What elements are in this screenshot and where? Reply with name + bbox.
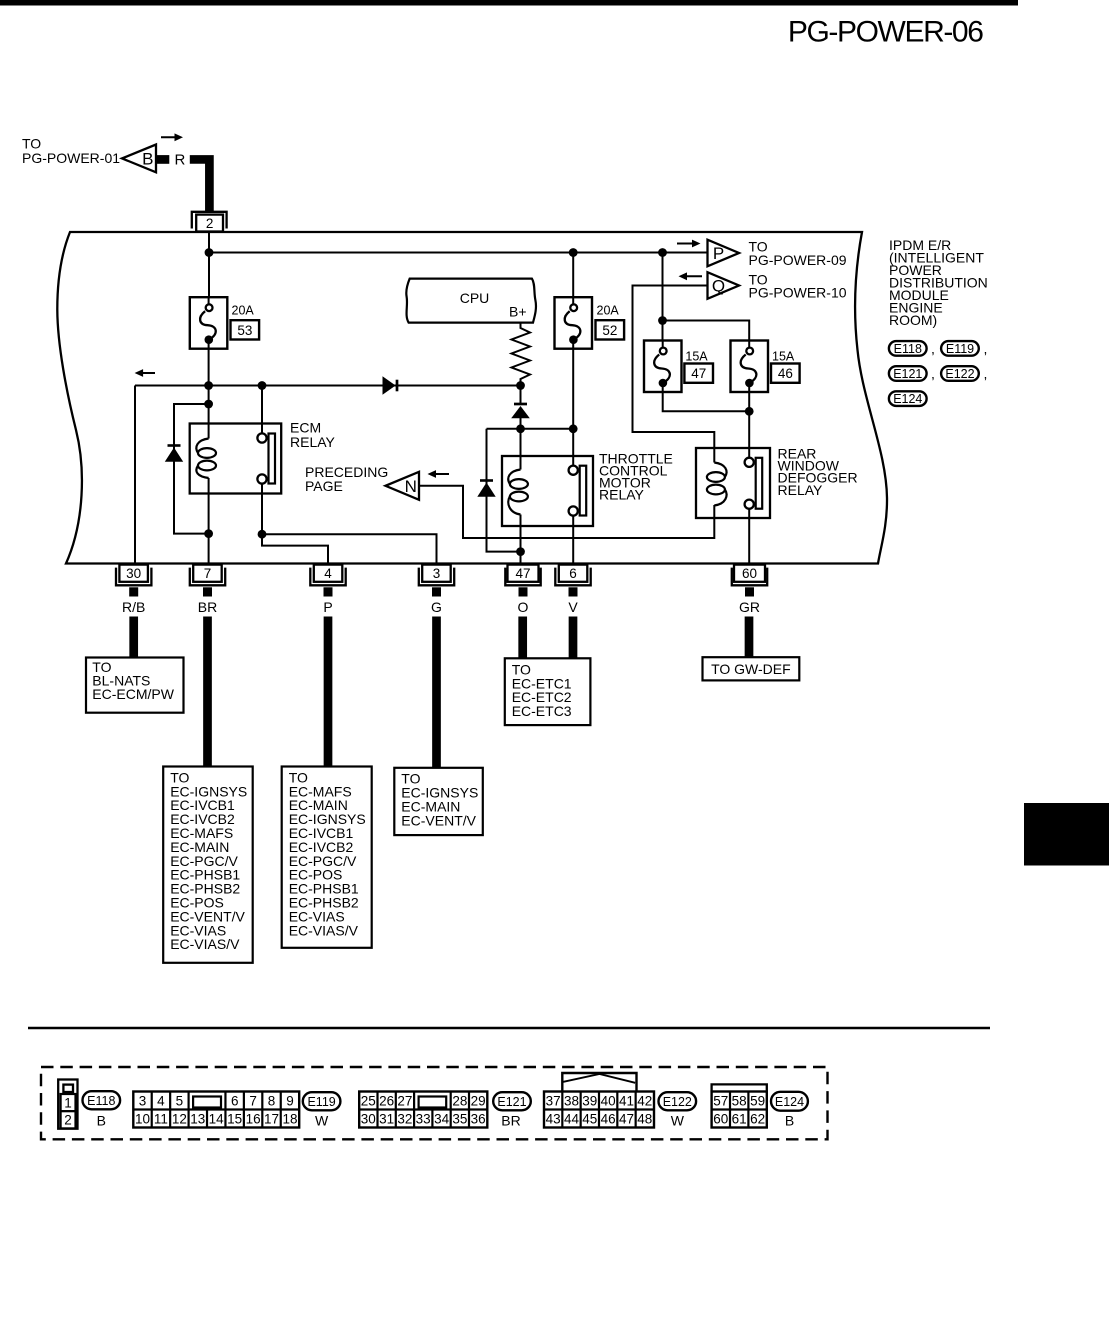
svg-text:16: 16 [246,1111,261,1126]
svg-text:6: 6 [569,566,577,581]
svg-text:39: 39 [582,1093,597,1108]
off-page connector triangle P [708,240,740,267]
svg-text:52: 52 [602,323,617,338]
svg-text:31: 31 [379,1111,394,1126]
svg-text:6: 6 [231,1093,239,1108]
thick wire G [432,617,441,769]
svg-text:E119: E119 [307,1095,335,1109]
wire ECM coil to connector 7 [208,478,210,534]
fuse number box 53 [231,320,260,339]
junction [204,381,213,390]
fuse number box 47 [684,364,713,383]
destination box list (G wire) [394,768,483,835]
arrow right (to PG-POWER-09) [677,240,701,248]
wire relay rail [487,428,574,430]
svg-text:EC-VIAS/V: EC-VIAS/V [170,936,240,952]
junction [204,529,213,538]
thick wire R/B [129,617,138,658]
rear window defogger relay box [696,448,770,518]
connector oval E119 [941,341,979,356]
svg-text:20A: 20A [232,303,255,317]
connector terminal 3 [419,565,454,597]
svg-text:E124: E124 [775,1095,804,1109]
wire throttle coil to connector 47 [520,515,522,552]
off-page connector triangle B [122,145,156,173]
diode D (series, pointing right) [383,376,398,394]
svg-text:2: 2 [64,1113,72,1128]
svg-text:27: 27 [397,1093,412,1108]
wire defogger contact to connector 60 [748,509,750,563]
svg-text:41: 41 [619,1093,634,1108]
wire to connector 3 [262,534,437,563]
svg-text:30: 30 [126,566,141,581]
fuse number box 46 [771,364,800,383]
svg-text:EC-VIAS/V: EC-VIAS/V [289,922,359,938]
svg-text:8: 8 [268,1093,276,1108]
arrow left (current direction) [135,369,155,377]
thick wire O [518,617,527,659]
svg-text:B+: B+ [509,304,527,320]
wire fuse 46 to defogger contact [748,392,750,458]
svg-text:9: 9 [286,1093,294,1108]
wire throttle contact to connector 6 [572,516,574,563]
svg-text:43: 43 [546,1111,561,1126]
svg-text:CPU: CPU [460,290,490,306]
dashed connector-views frame [41,1067,828,1139]
svg-text:G: G [431,599,442,615]
junction [569,248,578,257]
arrow right (from PG-POWER-01) [161,133,183,141]
svg-text:P: P [713,244,724,263]
svg-text:3: 3 [139,1093,147,1108]
svg-text:P: P [323,599,332,615]
CPU box (wavy sides) [406,279,536,323]
svg-text:Q: Q [712,277,725,296]
svg-text:14: 14 [209,1111,225,1126]
svg-text:47: 47 [691,366,706,381]
svg-text:13: 13 [190,1111,205,1126]
connector oval E122 (view) [659,1092,697,1110]
connector view E121 grid [359,1092,487,1128]
junction [204,400,213,409]
svg-text:47: 47 [515,566,530,581]
svg-text:25: 25 [361,1093,376,1108]
svg-text:N: N [405,477,417,496]
svg-text:RELAY: RELAY [778,482,824,498]
wire to connector 47 [520,552,522,563]
thick wire V [569,617,578,659]
junction [658,316,667,325]
svg-text:E118: E118 [894,342,922,356]
svg-text:7: 7 [249,1093,257,1108]
svg-text:10: 10 [135,1111,150,1126]
svg-text:45: 45 [582,1111,597,1126]
svg-text:28: 28 [452,1093,467,1108]
connector oval E121 [889,366,927,381]
svg-text:EC-ECM/PW: EC-ECM/PW [92,686,174,702]
thick wire BR [203,617,212,767]
wire main rail to connector 30 [135,385,521,387]
wire fuse 47 to node [663,392,750,411]
svg-text:12: 12 [172,1111,187,1126]
connector 2 (IPDM E/R terminal) [192,212,227,232]
svg-text:26: 26 [379,1093,394,1108]
svg-text:15A: 15A [772,350,795,364]
fuse 15A 46 [731,341,769,393]
svg-text:E122: E122 [945,367,974,381]
svg-text:61: 61 [732,1111,747,1126]
svg-text:E122: E122 [663,1095,692,1109]
IPDM E/R module outline (torn edges) [57,232,887,564]
svg-text:O: O [518,599,529,615]
svg-text:EC-VENT/V: EC-VENT/V [401,812,476,828]
connector terminal 30 [116,565,151,597]
svg-text:B: B [97,1112,106,1128]
thick wire GR [745,617,754,658]
svg-text:EC-ETC3: EC-ETC3 [512,703,572,719]
destination box TO EC-ETC1/2/3 [505,658,591,725]
connector terminal 7 [190,565,225,597]
svg-text:62: 62 [750,1111,765,1126]
svg-text:32: 32 [397,1111,412,1126]
svg-text:PG-POWER-06: PG-POWER-06 [788,16,983,49]
svg-text:36: 36 [471,1111,486,1126]
svg-text:RELAY: RELAY [599,487,645,503]
connector view E119 grid [133,1092,299,1128]
svg-text:PG-POWER-01: PG-POWER-01 [22,150,120,166]
svg-text:1: 1 [64,1096,72,1111]
fuse number box 52 [596,320,625,339]
svg-text:46: 46 [601,1111,616,1126]
wire N to rear defogger relay coil [419,486,714,538]
svg-text:59: 59 [750,1093,765,1108]
svg-text:PAGE: PAGE [305,478,343,494]
wire rail to throttle coil [520,429,522,470]
top header bar [0,0,1018,6]
wire bus to fuse 47 [662,253,664,341]
svg-text:4: 4 [157,1093,165,1108]
wire to throttle contact [572,429,574,466]
svg-text:53: 53 [237,323,252,338]
junction [516,381,525,390]
off-page connector triangle N [386,472,420,500]
wire to connector 4 [262,534,328,563]
diode (flyback, ECM relay) [165,446,183,462]
resistor (CPU B+ pull-up) [512,323,531,386]
wire diode branch around ECM coil [174,404,209,534]
wire to connector 7 [208,534,210,563]
separator rule [28,1027,990,1029]
wire ECM contact to branch node [261,484,263,535]
svg-text:E119: E119 [946,342,974,356]
E124 keying bar [712,1084,767,1091]
svg-text:3: 3 [433,566,441,581]
connector oval E124 [889,391,927,406]
connector oval E121 (view) [493,1092,531,1110]
svg-text:15A: 15A [685,350,708,364]
svg-text:E121: E121 [497,1095,526,1109]
fuse 20A 52 [555,297,593,349]
svg-text:29: 29 [471,1093,486,1108]
ECM relay box [190,424,282,494]
junction [516,424,525,433]
svg-text:4: 4 [324,566,332,581]
connector oval E122 [941,366,979,381]
throttle control motor relay box [502,456,593,526]
connector oval E118 [889,341,927,356]
junction [258,530,267,539]
svg-text:W: W [671,1112,685,1128]
junction [658,248,667,257]
junction [516,547,525,556]
svg-text:R/B: R/B [122,599,145,615]
connector oval E118 (view) [83,1091,121,1109]
svg-text:,: , [931,341,935,357]
svg-text:15: 15 [227,1111,242,1126]
rear defogger relay contact [745,458,763,509]
black section index tab [1024,803,1109,866]
svg-text:BR: BR [198,599,217,615]
svg-text:47: 47 [619,1111,634,1126]
svg-text:11: 11 [154,1111,168,1126]
svg-text:,: , [931,366,935,382]
svg-text:E118: E118 [87,1094,115,1108]
svg-text:40: 40 [601,1093,616,1108]
svg-text:PG-POWER-10: PG-POWER-10 [749,285,847,301]
svg-text:20A: 20A [597,303,620,317]
svg-text:48: 48 [637,1111,652,1126]
wire diode branch around throttle coil [487,429,521,552]
svg-text:57: 57 [713,1093,728,1108]
svg-text:60: 60 [742,566,757,581]
wire diode to relay rail [520,418,522,429]
svg-text:60: 60 [713,1111,728,1126]
wire down to connector 30 [134,386,136,563]
svg-text:GR: GR [739,599,760,615]
connector view E118 (2-pin) [58,1080,77,1129]
wire fuse 53 to ECM relay coil [208,349,210,424]
svg-text:B: B [142,150,153,169]
svg-text:PG-POWER-09: PG-POWER-09 [749,252,847,268]
svg-text:58: 58 [732,1093,747,1108]
svg-text:W: W [315,1112,329,1128]
destination box list (P wire) [282,767,372,948]
destination box TO BL-NATS EC-ECM/PW [86,658,184,713]
svg-text:34: 34 [434,1111,450,1126]
wire coil top inside relay [208,424,210,439]
connector oval E124 (view) [771,1092,808,1111]
connector view E122 grid [544,1092,654,1128]
svg-text:2: 2 [206,216,214,231]
wire resistor junction to diode [520,386,522,404]
wire to fuse 46 [663,321,750,341]
ECM relay contact [257,433,275,483]
wire fuse 52 to throttle contact [572,349,574,429]
destination box list (BR wire) [163,767,253,963]
svg-text:R: R [175,152,186,169]
svg-text:18: 18 [282,1111,297,1126]
junction [569,424,578,433]
svg-text:33: 33 [416,1111,431,1126]
off-page connector triangle Q [708,272,740,299]
svg-text:17: 17 [264,1111,279,1126]
connector view E124 grid [712,1092,767,1128]
thick wire P [324,617,333,767]
fuse 20A 53 [190,297,228,349]
svg-text:,: , [984,366,988,382]
fuse 15A 47 [644,341,682,393]
destination box TO GW-DEF [703,657,800,680]
wire rail to ECM relay contact [261,386,263,434]
svg-text:46: 46 [778,366,793,381]
bus wire to triangle P [209,252,708,254]
thick wire stub from triangle B [156,155,169,164]
connector terminal 4 [310,565,345,597]
svg-text:42: 42 [637,1093,652,1108]
wire connector 2 down to fuse 53 [208,232,210,303]
svg-text:E121: E121 [893,367,922,381]
rear defogger relay coil [707,463,727,506]
arrow left (to preceding page) [428,470,450,478]
diode (vertical, cathode bar up) [511,404,530,418]
E122 keying roof [562,1073,636,1092]
svg-text:RELAY: RELAY [290,434,336,450]
connector terminal 60 [732,565,767,597]
throttle relay coil [508,470,528,515]
junction [205,248,214,257]
svg-text:44: 44 [564,1111,580,1126]
svg-text:TO GW-DEF: TO GW-DEF [711,661,791,677]
svg-text:35: 35 [452,1111,467,1126]
thick wire R to connector 2 [190,159,210,212]
connector terminal 47 [505,565,540,597]
ECM relay coil [196,439,216,479]
svg-text:B: B [785,1112,794,1128]
svg-text:V: V [568,599,578,615]
connector terminal 6 [555,565,590,597]
junction [745,407,754,416]
svg-text:BR: BR [501,1112,520,1128]
wire Q to rear defogger coil [633,286,715,463]
svg-text:38: 38 [564,1093,579,1108]
diode (flyback, throttle relay) [477,481,495,497]
arrow left (from PG-POWER-10) [679,272,703,280]
junction [258,381,267,390]
svg-text:5: 5 [176,1093,184,1108]
svg-text:,: , [984,341,988,357]
svg-text:7: 7 [204,566,212,581]
throttle relay contact [569,466,587,516]
connector oval E119 (view) [303,1092,341,1110]
wire to fuse 52 [572,253,574,298]
svg-text:30: 30 [361,1111,376,1126]
svg-text:ROOM): ROOM) [889,312,937,328]
svg-text:E124: E124 [893,392,922,406]
svg-text:37: 37 [546,1093,561,1108]
